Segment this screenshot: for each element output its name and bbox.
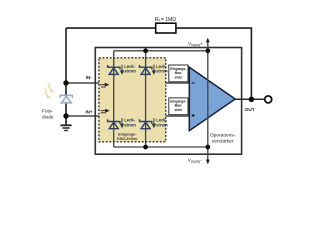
minus marker: [192, 82, 195, 84]
V- rail: [114, 146, 208, 148]
op-amp IC box: [95, 48, 241, 155]
svg-text:strom: strom: [124, 69, 136, 74]
diode ESD top-left: [108, 65, 120, 74]
bias arrow IN-: [100, 83, 108, 87]
light arrows: [44, 83, 53, 98]
svg-text:strom: strom: [124, 122, 136, 127]
bias arrow IN+: [101, 109, 109, 112]
diode ESD bottom-right: [140, 119, 152, 128]
svg-text:Rf = 1MΩ: Rf = 1MΩ: [155, 17, 176, 23]
op-amp U1: [189, 67, 235, 131]
input stage box bottom: [169, 98, 188, 115]
leakage arrow top-left: [121, 65, 124, 74]
node rail top c2: [143, 48, 148, 53]
wire IN+ horizontal: [66, 115, 190, 117]
node IN+ junction: [63, 113, 68, 118]
wire IN- horizontal: [66, 82, 190, 84]
svg-text:OUT: OUT: [245, 107, 255, 113]
resistor Rf: [156, 23, 176, 33]
supply line vertical: [207, 42, 209, 161]
wire feedback top: [66, 27, 156, 29]
svg-text:ESD-Zellen: ESD-Zellen: [117, 137, 138, 141]
svg-text:Foto-: Foto-: [42, 109, 53, 114]
node supply bottom: [205, 145, 210, 150]
V+ rail: [114, 50, 208, 52]
wire column 1: [113, 51, 115, 147]
input stage box top: [169, 65, 188, 82]
wire column 2: [145, 51, 147, 147]
node output junction: [249, 97, 255, 103]
node rail bottom c2: [143, 145, 148, 150]
leakage arrow bottom-left: [121, 118, 124, 127]
svg-text:Operations-: Operations-: [210, 133, 236, 139]
svg-text:strom: strom: [156, 69, 168, 74]
terminal OUT: [265, 96, 272, 103]
V+ arrow: [206, 38, 210, 43]
wire left vertical: [65, 28, 67, 125]
ESD cell box: [99, 58, 166, 142]
V- arrow: [206, 160, 210, 165]
svg-text:verstärker: verstärker: [212, 138, 234, 144]
leakage arrow bottom-right: [153, 118, 156, 127]
ground: [60, 125, 71, 130]
plus marker: [192, 114, 195, 117]
svg-text:stein: stein: [175, 75, 183, 79]
svg-text:strom: strom: [156, 122, 168, 127]
diode ESD bottom-left: [108, 119, 120, 128]
wire output: [235, 98, 265, 100]
photodiode D1: [60, 95, 72, 103]
svg-text:Eingangs-: Eingangs-: [118, 132, 137, 136]
svg-text:diode: diode: [42, 115, 54, 120]
leakage arrow top-right: [153, 65, 156, 74]
diode ESD top-right: [140, 65, 152, 74]
svg-text:stein: stein: [175, 108, 183, 112]
svg-text:IN+: IN+: [85, 110, 93, 115]
node supply top: [205, 48, 210, 53]
svg-text:IN-: IN-: [86, 75, 93, 80]
node IN- junction: [63, 80, 68, 85]
wire feedback right: [176, 28, 252, 99]
